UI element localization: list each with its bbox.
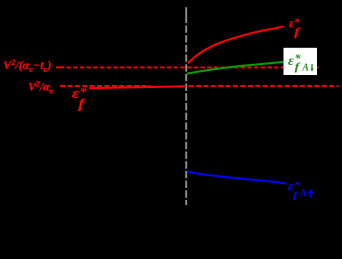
red curve epsilon_f* for x>0 [188,26,284,63]
lower red dashed asymptote V^2/alpha_c [60,85,151,87]
solid red line epsilon_f* for x<0 [89,86,186,88]
svg-text:A: A [301,63,309,74]
svg-text:ε: ε [288,54,294,69]
green curve epsilon_fA-down* [187,62,284,74]
upper red dashed asymptote V^2/(alpha_c - t_c) [56,66,64,68]
svg-text:A: A [299,188,307,199]
vertical transition line (gray dashed) [185,7,187,23]
white legend box [284,48,318,75]
blue curve epsilon_fA-up* [187,172,286,184]
